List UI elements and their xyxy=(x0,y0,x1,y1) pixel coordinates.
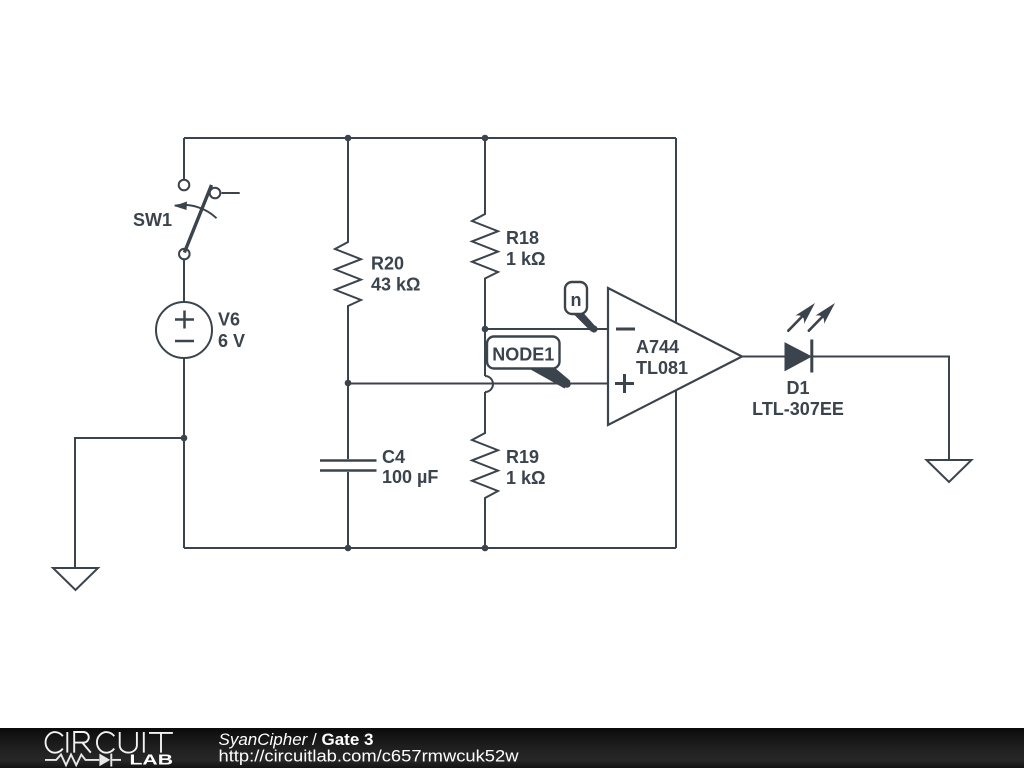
svg-text:n: n xyxy=(571,290,582,310)
svg-text:R19: R19 xyxy=(506,447,539,467)
svg-text:SW1: SW1 xyxy=(133,210,172,230)
svg-text:TL081: TL081 xyxy=(636,358,688,378)
svg-text:6 V: 6 V xyxy=(218,331,245,351)
svg-text:43 kΩ: 43 kΩ xyxy=(371,275,420,295)
svg-text:LAB: LAB xyxy=(130,752,174,768)
svg-text:R20: R20 xyxy=(371,254,404,274)
svg-text:D1: D1 xyxy=(786,378,809,398)
svg-text:100 µF: 100 µF xyxy=(382,467,438,487)
svg-text:1 kΩ: 1 kΩ xyxy=(506,249,545,269)
svg-text:NODE1: NODE1 xyxy=(492,345,554,365)
svg-text:C4: C4 xyxy=(382,447,405,467)
svg-text:V6: V6 xyxy=(218,310,240,330)
svg-text:1 kΩ: 1 kΩ xyxy=(506,468,545,488)
svg-text:R18: R18 xyxy=(506,228,539,248)
svg-text:http://circuitlab.com/c657rmwc: http://circuitlab.com/c657rmwcuk52w xyxy=(219,747,520,766)
svg-text:LTL-307EE: LTL-307EE xyxy=(752,399,844,419)
svg-text:A744: A744 xyxy=(636,337,679,357)
